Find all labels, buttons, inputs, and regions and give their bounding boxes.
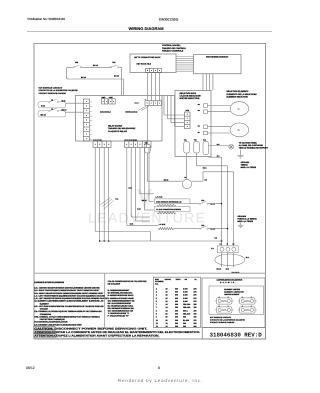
svg-text:HOT SURFACE CONTACT/: HOT SURFACE CONTACT/ <box>39 87 63 90</box>
svg-text:18: 18 <box>166 297 168 300</box>
svg-text:PLAQUETTE RELAIS: PLAQUETTE RELAIS <box>108 130 128 133</box>
svg-text:318046830 REV:D: 318046830 REV:D <box>210 332 263 339</box>
svg-text:R.F.- RIGHT FRONT/FRENTE DEREC: R.F.- RIGHT FRONT/FRENTE DERECHO/AVANT D… <box>34 289 100 292</box>
svg-text:LEFT'S CONDUCTORS RACK: LEFT'S CONDUCTORS RACK <box>134 56 161 59</box>
svg-text:7: 7 <box>156 303 157 306</box>
svg-text:CONNEXION: CONNEXION <box>40 313 52 316</box>
svg-text:MISE A LA TERRE: MISE A LA TERRE <box>241 166 257 169</box>
svg-text:A: A <box>242 296 243 298</box>
svg-text:A: A <box>219 296 220 298</box>
svg-text:L.F.- LEFT FRONT/FRENTE IZQUIE: L.F.- LEFT FRONT/FRENTE IZQUIERDO/AVANT … <box>34 294 105 297</box>
svg-text:D.S.-DRAWER CABLE/TUBO FLEXIBL: D.S.-DRAWER CABLE/TUBO FLEXIBLE/CABLE HW… <box>34 323 82 326</box>
svg-text:T.B.-TERMINAL BLOCK/BLOQUE DE: T.B.-TERMINAL BLOCK/BLOQUE DE TERMINALES… <box>34 310 102 313</box>
svg-text:INDUCTION ELEMENT/: INDUCTION ELEMENT/ <box>227 90 249 93</box>
svg-text:8: 8 <box>156 313 157 316</box>
svg-text:INDUCTION BOX/: INDUCTION BOX/ <box>180 92 197 95</box>
svg-text:GAUGE: GAUGE <box>165 278 172 281</box>
svg-text:LEADVENTURE: LEADVENTURE <box>88 210 207 226</box>
svg-text:300: 300 <box>175 319 178 322</box>
svg-text:270: 270 <box>194 300 197 303</box>
svg-text:20: 20 <box>166 316 168 319</box>
svg-text:ELEMENT: ELEMENT <box>40 302 50 305</box>
svg-text:300: 300 <box>194 325 197 328</box>
svg-text:270: 270 <box>194 287 197 290</box>
svg-text:300-1: 300-1 <box>183 309 188 312</box>
svg-text:TB-FAN/VENTILADOR/VENTILATEUR: TB-FAN/VENTILADOR/VENTILATEUR <box>34 321 68 324</box>
svg-text:20: 20 <box>166 319 168 322</box>
svg-text:18: 18 <box>166 287 168 290</box>
svg-text:WIRING DIAGRAM: WIRING DIAGRAM <box>129 26 165 31</box>
svg-text:A: A <box>242 305 243 307</box>
svg-text:270: 270 <box>194 294 197 297</box>
svg-text:CAJA DE INDUCCION/: CAJA DE INDUCCION/ <box>180 94 202 97</box>
svg-text:BK-10: BK-10 <box>62 108 67 111</box>
svg-text:300: 300 <box>183 316 186 319</box>
svg-text:3-300: 3-300 <box>183 297 188 300</box>
svg-text:CONTACT SURFACE CHAUDE: CONTACT SURFACE CHAUDE <box>39 92 67 95</box>
svg-text:300: 300 <box>175 309 178 312</box>
svg-text:L.F. ELE: L.F. ELE <box>159 223 166 226</box>
svg-text:300: 300 <box>175 325 178 328</box>
svg-text:TABLEAU CONTROLE: TABLEAU CONTROLE <box>162 49 184 52</box>
svg-text:300: 300 <box>175 303 178 306</box>
svg-text:300: 300 <box>183 325 186 328</box>
svg-text:300: 300 <box>175 322 178 325</box>
svg-text:P- VIOLETA/VIOLET PP: P- VIOLETA/VIOLET PP <box>108 314 130 317</box>
svg-text:W-10: W-10 <box>62 99 66 102</box>
svg-text:BK-10: BK-10 <box>93 64 98 67</box>
svg-text:CONTROL BOARD;: CONTROL BOARD; <box>162 44 181 47</box>
svg-text:L.F. CLN: L.F. CLN <box>156 196 164 199</box>
svg-text:KEY RACK FILE: KEY RACK FILE <box>137 63 152 66</box>
svg-text:BOITIER INDUCTION: BOITIER INDUCTION <box>180 97 200 100</box>
svg-text:270: 270 <box>194 309 197 312</box>
svg-text:TABLERO DE CONTROL/: TABLERO DE CONTROL/ <box>162 47 186 50</box>
svg-text:12: 12 <box>156 325 158 328</box>
svg-text:LIMITER ELEMENT: LIMITER ELEMENT <box>224 293 240 296</box>
svg-text:L.R.- LEFT REAR/POSTERIOR IZQU: L.R.- LEFT REAR/POSTERIOR IZQUIERDO/ARRI… <box>34 297 108 300</box>
svg-text:CBL-300: CBL-300 <box>183 313 190 316</box>
svg-text:LEGEND/LEYENDA/LEGENDE: LEGEND/LEYENDA/LEGENDE <box>34 281 64 284</box>
svg-text:10: 10 <box>156 322 158 325</box>
svg-text:3-300: 3-300 <box>183 287 188 290</box>
svg-text:PROTECTEUR THERMIQUE: PROTECTEUR THERMIQUE <box>40 318 66 321</box>
svg-text:8: 8 <box>156 309 157 312</box>
svg-text:300: 300 <box>175 300 178 303</box>
svg-text:CBL-300: CBL-300 <box>183 306 190 309</box>
svg-text:VERS LE PANNEAU DE SUPPORT: VERS LE PANNEAU DE SUPPORT <box>239 147 269 150</box>
svg-text:CBL-300: CBL-300 <box>183 303 190 306</box>
svg-text:L2: L2 <box>51 99 53 102</box>
svg-text:BK-10: BK-10 <box>41 114 46 117</box>
svg-text:300: 300 <box>194 303 197 306</box>
svg-text:ATENCION:CORTAR LA CORRIENTE A: ATENCION:CORTAR LA CORRIENTE ANTES DE RE… <box>34 331 200 334</box>
svg-text:3-300: 3-300 <box>183 300 188 303</box>
svg-text:TBB.-THERMAL CUTOUT BREAKER/IN: TBB.-THERMAL CUTOUT BREAKER/INTERRUPTOR … <box>34 315 100 318</box>
svg-text:300: 300 <box>175 316 178 319</box>
svg-text:CONTACT SURFACE CHAUDE: CONTACT SURFACE CHAUDE <box>210 321 235 324</box>
svg-text:300: 300 <box>175 297 178 300</box>
svg-text:4: 4 <box>156 290 157 293</box>
svg-text:H-4: H-4 <box>116 197 119 200</box>
svg-text:ELEMENTO DE LA INDUCCION/: ELEMENTO DE LA INDUCCION/ <box>227 93 257 96</box>
svg-text:270: 270 <box>194 290 197 293</box>
svg-text:ATTENTION:COUPEZ L'ALIMENTATIO: ATTENTION:COUPEZ L'ALIMENTATION AVANT D'… <box>34 335 159 338</box>
svg-text:300: 300 <box>175 290 178 293</box>
svg-text:300: 300 <box>175 294 178 297</box>
svg-text:300: 300 <box>175 313 178 316</box>
svg-text:ELEMENT INDUCTION: ELEMENT INDUCTION <box>227 95 249 98</box>
svg-text:10: 10 <box>156 319 158 322</box>
svg-text:1 A.: 1 A. <box>211 247 215 250</box>
svg-text:L1: L1 <box>220 242 222 245</box>
svg-text:B.A.: B.A. <box>246 256 250 259</box>
svg-text:MISE A LA TERRE: MISE A LA TERRE <box>238 220 254 223</box>
svg-text:18: 18 <box>166 290 168 293</box>
svg-text:18: 18 <box>166 294 168 297</box>
svg-text:D.S.- CENTER REAR/POSTERIOR CE: D.S.- CENTER REAR/POSTERIOR CENTRAL/ARRI… <box>34 287 100 290</box>
svg-text:AL: AL <box>195 278 197 281</box>
svg-text:4: 4 <box>156 294 157 297</box>
svg-text:270: 270 <box>194 319 197 322</box>
svg-text:3-300: 3-300 <box>183 290 188 293</box>
svg-text:300: 300 <box>194 316 197 319</box>
svg-text:R-10: R-10 <box>41 105 45 108</box>
svg-text:300: 300 <box>183 322 186 325</box>
svg-text:14: 14 <box>166 303 168 306</box>
svg-text:06/12: 06/12 <box>26 366 35 370</box>
svg-text:I.B.-ELEMENT (LIMITER)ELEMENTO: I.B.-ELEMENT (LIMITER)ELEMENTO (LIMITADO… <box>34 300 104 303</box>
svg-text:BK-10: BK-10 <box>81 76 86 79</box>
svg-text:9: 9 <box>156 316 157 319</box>
svg-text:CONTACTO DE LA SUPERFICIE CALI: CONTACTO DE LA SUPERFICIE CALIENTE/ <box>39 89 79 92</box>
svg-text:4: 4 <box>156 287 157 290</box>
svg-text:14: 14 <box>166 322 168 325</box>
svg-text:5: 5 <box>156 300 157 303</box>
svg-text:300: 300 <box>194 322 197 325</box>
svg-text:EW30CC55G: EW30CC55G <box>159 18 179 22</box>
svg-text:CHAUDE: CHAUDE <box>40 308 49 311</box>
svg-text:20: 20 <box>166 313 168 316</box>
svg-text:Rendered by Leadventure, Inc.: Rendered by Leadventure, Inc. <box>118 378 202 383</box>
svg-text:5: 5 <box>156 297 157 300</box>
svg-text:14: 14 <box>166 306 168 309</box>
svg-text:TABLERO DEL RELE(VADOR)/: TABLERO DEL RELE(VADOR)/ <box>108 127 136 130</box>
svg-text:300: 300 <box>175 306 178 309</box>
svg-text:A: A <box>219 305 220 307</box>
svg-text:14: 14 <box>166 309 168 312</box>
svg-text:300: 300 <box>175 287 178 290</box>
svg-text:TAB R: TAB R <box>176 278 182 281</box>
svg-text:R.R.- RIGHT REAR/POSTERIOR DER: R.R.- RIGHT REAR/POSTERIOR DERECHO/ARRIE… <box>34 292 104 295</box>
svg-text:CAL: CAL <box>155 283 158 286</box>
svg-text:8: 8 <box>158 366 160 370</box>
svg-text:BK-10: BK-10 <box>114 75 119 78</box>
svg-text:300: 300 <box>194 313 197 316</box>
svg-text:RIGHT/DERECHO/DROIT: RIGHT/DERECHO/DROIT <box>206 56 229 59</box>
svg-text:BL-300: BL-300 <box>183 319 189 322</box>
svg-text:14: 14 <box>166 325 168 328</box>
svg-text:300: 300 <box>194 306 197 309</box>
svg-text:7: 7 <box>156 306 157 309</box>
svg-text:L1: L1 <box>51 108 53 111</box>
svg-text:3-300: 3-300 <box>183 294 188 297</box>
svg-text:18: 18 <box>166 300 168 303</box>
svg-text:270: 270 <box>194 297 197 300</box>
svg-text:E.S.C.M.T.S.: E.S.C.M.T.S. <box>220 281 236 284</box>
svg-text:DE COULEUR: DE COULEUR <box>108 283 121 286</box>
svg-text:Publication No: 5995616116: Publication No: 5995616116 <box>28 17 66 21</box>
svg-text:H.S.- HOT SURFACE/SUPERFICIE C: H.S.- HOT SURFACE/SUPERFICIE CALIENTE/SU… <box>34 305 104 308</box>
svg-text:L2: L2 <box>232 242 234 245</box>
svg-text:RELAY BOARD/: RELAY BOARD/ <box>108 124 123 127</box>
